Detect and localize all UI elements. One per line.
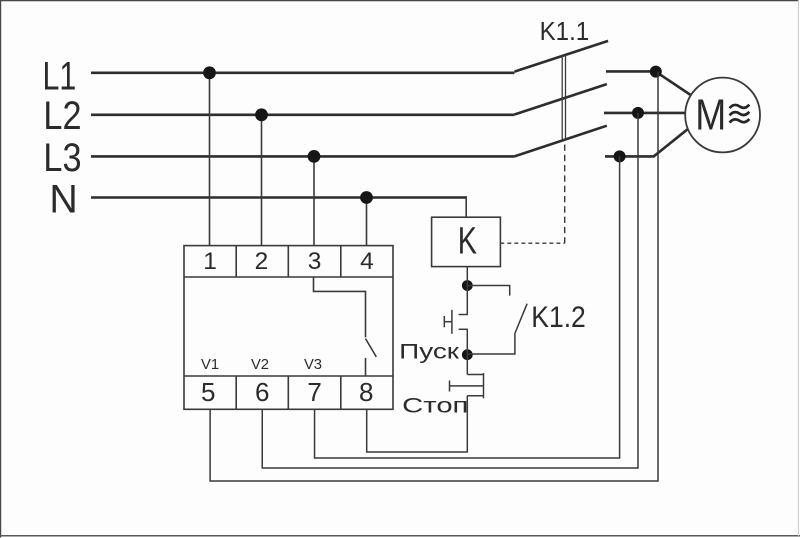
svg-text:V3: V3 — [304, 357, 322, 373]
svg-text:L3: L3 — [43, 136, 81, 180]
svg-text:L1: L1 — [43, 54, 77, 98]
svg-text:2: 2 — [255, 248, 269, 275]
svg-text:N: N — [49, 178, 77, 222]
svg-text:4: 4 — [360, 248, 374, 275]
svg-text:8: 8 — [359, 377, 373, 407]
svg-text:Пуск: Пуск — [399, 341, 460, 364]
svg-text:V1: V1 — [201, 357, 219, 373]
svg-text:6: 6 — [255, 377, 269, 407]
svg-text:L2: L2 — [43, 94, 81, 138]
svg-text:1: 1 — [203, 248, 217, 275]
svg-text:Стоп: Стоп — [402, 394, 468, 417]
svg-text:3: 3 — [308, 248, 322, 275]
svg-text:K1.2: K1.2 — [531, 301, 586, 334]
svg-text:M: M — [695, 91, 726, 139]
svg-text:K1.1: K1.1 — [540, 16, 590, 46]
svg-text:K: K — [458, 219, 477, 261]
svg-text:7: 7 — [307, 377, 321, 407]
svg-text:V2: V2 — [251, 357, 269, 373]
svg-text:5: 5 — [201, 377, 215, 407]
